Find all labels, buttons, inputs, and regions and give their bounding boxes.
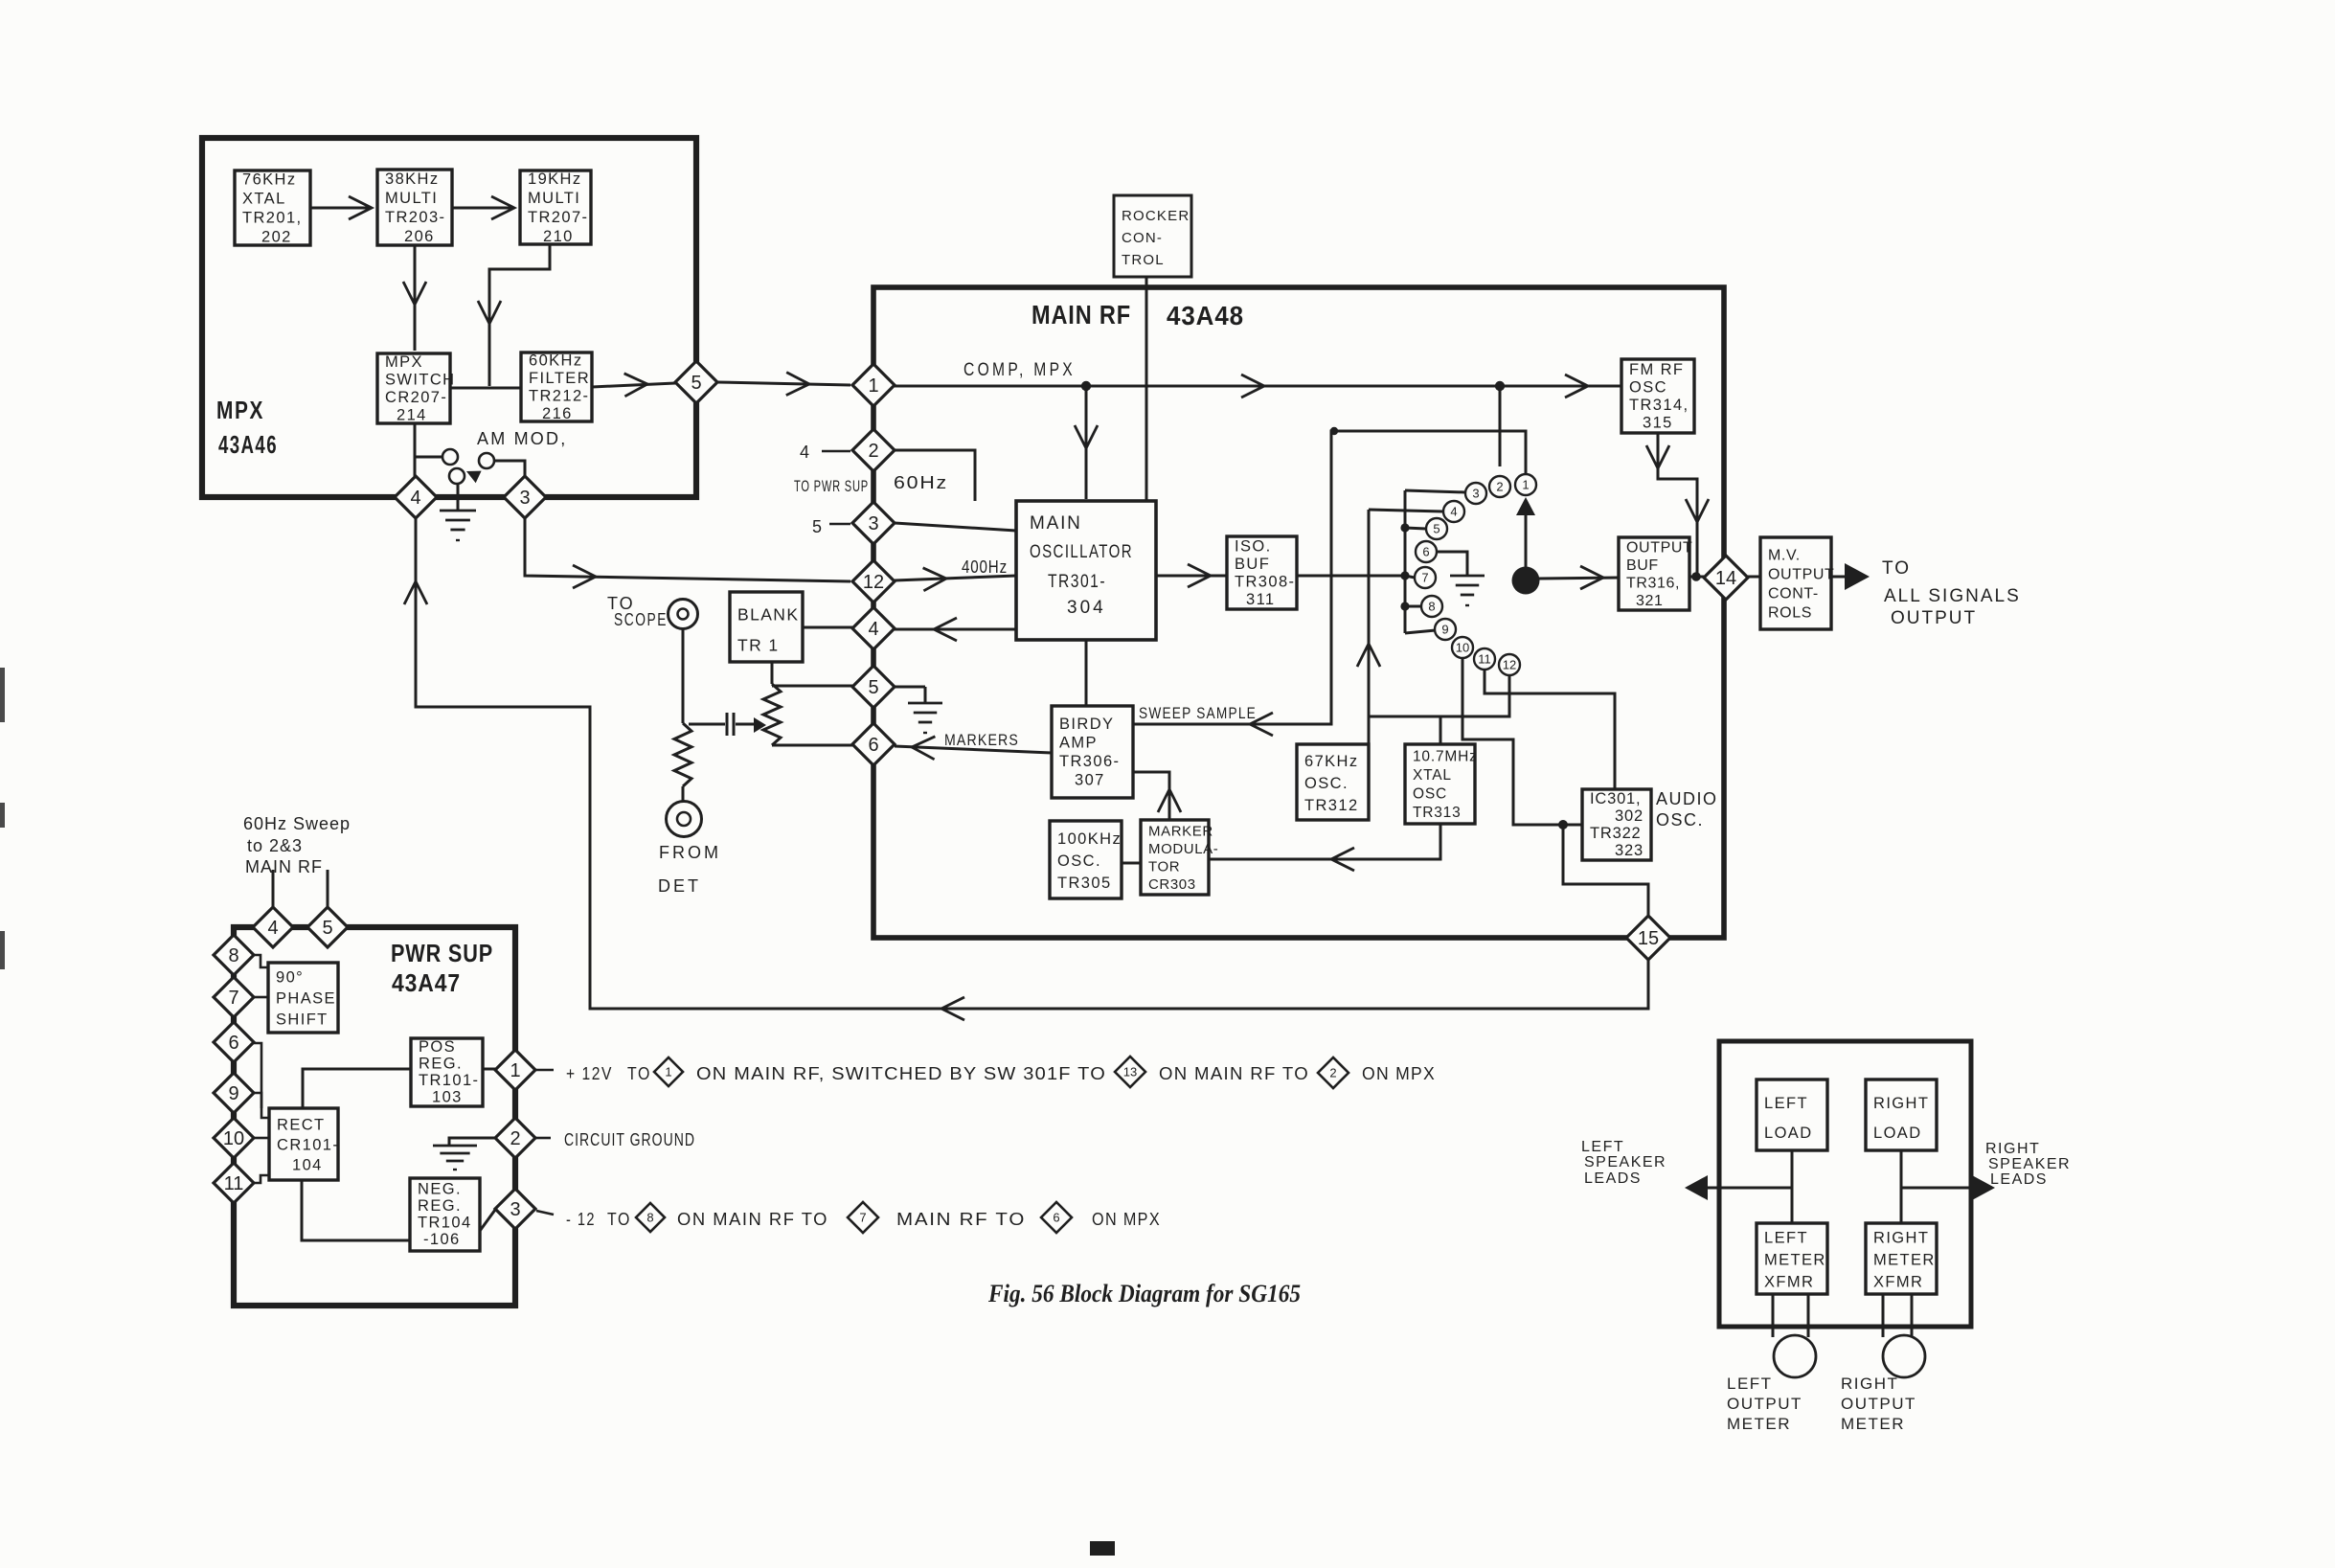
svg-text:TR212-: TR212-	[529, 387, 589, 404]
svg-text:6: 6	[228, 1033, 238, 1054]
svg-text:43A48: 43A48	[1167, 301, 1244, 330]
svg-text:TR203-: TR203-	[385, 209, 445, 226]
svg-text:2: 2	[1329, 1066, 1336, 1080]
svg-text:CON-: CON-	[1122, 230, 1163, 246]
svg-text:67KHz: 67KHz	[1304, 753, 1359, 770]
svg-text:TOR: TOR	[1148, 858, 1180, 875]
svg-text:XFMR: XFMR	[1873, 1273, 1923, 1290]
svg-text:RIGHT: RIGHT	[1873, 1095, 1929, 1112]
svg-text:2: 2	[510, 1128, 520, 1149]
svg-text:ROLS: ROLS	[1768, 605, 1812, 622]
svg-text:SCOPE: SCOPE	[614, 610, 668, 629]
svg-text:400Hz: 400Hz	[962, 557, 1008, 577]
svg-text:13: 13	[1123, 1065, 1137, 1079]
svg-text:OSC: OSC	[1629, 378, 1667, 396]
svg-text:SPEAKER: SPEAKER	[1584, 1154, 1666, 1170]
svg-text:CR303: CR303	[1148, 876, 1196, 893]
svg-text:FILTER: FILTER	[529, 370, 590, 387]
svg-text:MODULA-: MODULA-	[1148, 841, 1218, 857]
svg-text:OUTPUT: OUTPUT	[1891, 608, 1977, 628]
svg-text:4: 4	[868, 619, 878, 640]
svg-text:RIGHT: RIGHT	[1985, 1141, 2040, 1157]
svg-text:XTAL: XTAL	[1413, 767, 1452, 784]
svg-text:LOAD: LOAD	[1873, 1125, 1922, 1142]
svg-text:TR322: TR322	[1590, 825, 1642, 842]
svg-text:SWITCH: SWITCH	[385, 371, 455, 388]
svg-text:ON MPX: ON MPX	[1092, 1210, 1161, 1229]
svg-text:4: 4	[267, 918, 278, 939]
svg-text:ON MAIN RF TO: ON MAIN RF TO	[1159, 1064, 1309, 1083]
svg-text:MAIN: MAIN	[1030, 513, 1082, 534]
svg-text:SHIFT: SHIFT	[276, 1011, 329, 1029]
svg-text:5: 5	[868, 677, 878, 698]
svg-text:9: 9	[228, 1083, 238, 1104]
svg-text:SWEEP SAMPLE: SWEEP SAMPLE	[1139, 704, 1257, 722]
svg-text:COMP, MPX: COMP, MPX	[963, 360, 1076, 380]
svg-text:+ 12V: + 12V	[566, 1064, 613, 1083]
svg-text:PHASE: PHASE	[276, 990, 336, 1008]
svg-text:OSC.: OSC.	[1304, 775, 1349, 792]
svg-text:4: 4	[1450, 505, 1457, 519]
svg-text:3: 3	[519, 488, 530, 509]
svg-text:CR207-: CR207-	[385, 389, 447, 406]
svg-text:OUTPUT: OUTPUT	[1768, 567, 1834, 583]
svg-text:XFMR: XFMR	[1764, 1273, 1814, 1290]
svg-text:IC301,: IC301,	[1590, 790, 1641, 807]
svg-text:1: 1	[1522, 478, 1529, 492]
svg-text:100KHz: 100KHz	[1057, 830, 1122, 848]
svg-text:6: 6	[868, 735, 878, 756]
svg-text:RIGHT: RIGHT	[1873, 1229, 1929, 1246]
svg-text:ON MAIN RF, SWITCHED BY S: ON MAIN RF, SWITCHED BY SW 301F TO	[696, 1064, 1106, 1083]
svg-text:323: 323	[1615, 842, 1644, 859]
svg-text:1: 1	[665, 1065, 671, 1079]
svg-text:LEFT: LEFT	[1727, 1375, 1773, 1393]
svg-text:9: 9	[1441, 623, 1448, 637]
svg-text:ON MAIN RF TO: ON MAIN RF TO	[677, 1210, 828, 1229]
svg-text:7: 7	[228, 988, 238, 1009]
svg-text:TO: TO	[1882, 558, 1911, 579]
svg-text:ON MPX: ON MPX	[1362, 1064, 1436, 1083]
svg-text:11: 11	[224, 1173, 244, 1194]
svg-text:TR308-: TR308-	[1235, 573, 1295, 590]
svg-text:90°: 90°	[276, 969, 304, 987]
svg-text:60Hz Sweep: 60Hz Sweep	[243, 814, 351, 833]
svg-text:TO: TO	[607, 1210, 631, 1229]
svg-text:19KHz: 19KHz	[528, 170, 582, 188]
svg-text:to 2&3: to 2&3	[247, 836, 303, 855]
svg-text:XTAL: XTAL	[242, 191, 286, 208]
svg-text:7: 7	[859, 1211, 866, 1225]
svg-text:302: 302	[1615, 807, 1644, 825]
svg-text:8: 8	[228, 945, 238, 966]
svg-text:LEADS: LEADS	[1584, 1170, 1642, 1187]
svg-text:TR104: TR104	[418, 1215, 472, 1232]
svg-text:BLANK: BLANK	[737, 604, 799, 624]
svg-text:3: 3	[510, 1199, 520, 1220]
svg-text:METER: METER	[1841, 1415, 1905, 1433]
svg-text:2: 2	[1496, 480, 1503, 494]
svg-text:4: 4	[410, 488, 420, 509]
svg-text:MULTI: MULTI	[385, 190, 438, 207]
svg-text:MARKERS: MARKERS	[944, 731, 1019, 749]
svg-text:MPX: MPX	[385, 353, 423, 371]
svg-text:10: 10	[223, 1128, 244, 1149]
svg-text:SPEAKER: SPEAKER	[1988, 1156, 2071, 1172]
svg-text:OUTPUT: OUTPUT	[1626, 539, 1692, 556]
svg-text:MAIN RF: MAIN RF	[1031, 300, 1131, 330]
svg-text:LEFT: LEFT	[1764, 1095, 1808, 1112]
svg-text:321: 321	[1636, 593, 1664, 609]
svg-text:4: 4	[800, 443, 811, 462]
svg-text:202: 202	[261, 229, 292, 246]
svg-text:TR314,: TR314,	[1629, 397, 1689, 414]
svg-text:TR207-: TR207-	[528, 209, 588, 226]
svg-text:NEG.: NEG.	[418, 1181, 462, 1198]
svg-text:OSC.: OSC.	[1057, 852, 1101, 870]
svg-text:LEFT: LEFT	[1764, 1229, 1808, 1246]
svg-text:103: 103	[432, 1089, 463, 1106]
svg-text:8: 8	[646, 1211, 653, 1225]
svg-text:LEADS: LEADS	[1990, 1171, 2048, 1188]
svg-text:12: 12	[1503, 658, 1516, 672]
svg-text:60KHz: 60KHz	[529, 352, 583, 369]
svg-text:11: 11	[1478, 652, 1491, 667]
svg-text:TR101-: TR101-	[419, 1072, 479, 1089]
svg-text:315: 315	[1643, 414, 1673, 431]
svg-text:76KHz: 76KHz	[242, 171, 297, 189]
svg-text:M.V.: M.V.	[1768, 548, 1801, 564]
svg-text:206: 206	[404, 228, 435, 245]
svg-text:5: 5	[322, 918, 332, 939]
svg-text:PWR SUP: PWR SUP	[391, 939, 493, 967]
svg-text:AUDIO: AUDIO	[1656, 789, 1718, 808]
svg-text:1: 1	[868, 375, 878, 397]
svg-text:TO PWR SUP: TO PWR SUP	[794, 477, 869, 495]
svg-text:6: 6	[1053, 1211, 1059, 1225]
svg-text:ISO.: ISO.	[1235, 537, 1272, 555]
svg-text:TR316,: TR316,	[1626, 575, 1680, 591]
svg-text:60Hz: 60Hz	[894, 473, 948, 492]
svg-text:MAIN RF TO: MAIN RF TO	[896, 1210, 1026, 1229]
svg-text:14: 14	[1715, 568, 1736, 589]
svg-text:TR306-: TR306-	[1059, 753, 1120, 770]
svg-text:1: 1	[510, 1060, 520, 1081]
svg-text:3: 3	[1472, 487, 1479, 501]
svg-text:MAIN RF: MAIN RF	[245, 857, 323, 876]
svg-text:5: 5	[691, 373, 701, 394]
svg-text:104: 104	[292, 1156, 323, 1173]
svg-text:DET: DET	[658, 876, 701, 896]
svg-text:OUTPUT: OUTPUT	[1841, 1395, 1916, 1413]
svg-text:43A46: 43A46	[218, 430, 278, 459]
svg-text:TROL: TROL	[1122, 252, 1165, 268]
svg-text:38KHz: 38KHz	[385, 170, 440, 188]
svg-text:OSC: OSC	[1413, 786, 1447, 803]
svg-text:TR313: TR313	[1413, 805, 1462, 821]
svg-text:TR301-: TR301-	[1048, 572, 1106, 592]
svg-text:TR312: TR312	[1304, 797, 1359, 814]
svg-text:BUF: BUF	[1235, 556, 1270, 573]
svg-text:Fig. 56 Block Diagram for SG1: Fig. 56 Block Diagram for SG165	[987, 1280, 1301, 1307]
svg-text:METER: METER	[1727, 1415, 1791, 1433]
svg-text:304: 304	[1067, 598, 1106, 618]
svg-text:3: 3	[868, 513, 878, 534]
svg-text:LEFT: LEFT	[1581, 1139, 1624, 1155]
svg-text:REG.: REG.	[419, 1056, 463, 1073]
svg-text:12: 12	[863, 572, 884, 593]
svg-text:216: 216	[542, 405, 573, 422]
svg-text:MPX: MPX	[216, 396, 264, 424]
svg-text:311: 311	[1246, 591, 1276, 608]
svg-text:5: 5	[1433, 522, 1440, 536]
svg-text:214: 214	[397, 406, 427, 423]
svg-text:TR201,: TR201,	[242, 210, 303, 227]
svg-text:CONT-: CONT-	[1768, 586, 1819, 602]
svg-text:AM MOD,: AM MOD,	[477, 429, 567, 448]
svg-text:FM RF: FM RF	[1629, 361, 1684, 378]
svg-text:43A47: 43A47	[392, 968, 461, 997]
svg-text:5: 5	[812, 517, 824, 536]
svg-text:OSCILLATOR: OSCILLATOR	[1030, 542, 1133, 562]
svg-text:FROM: FROM	[659, 843, 721, 862]
svg-text:TO: TO	[627, 1064, 651, 1083]
svg-text:MULTI: MULTI	[528, 190, 580, 207]
svg-text:METER: METER	[1873, 1251, 1936, 1268]
svg-text:307: 307	[1075, 772, 1105, 789]
svg-text:8: 8	[1428, 600, 1435, 614]
svg-text:210: 210	[543, 228, 574, 245]
svg-text:15: 15	[1638, 928, 1659, 949]
svg-text:BUF: BUF	[1626, 557, 1659, 574]
svg-text:TR 1: TR 1	[737, 635, 780, 654]
svg-text:ROCKER: ROCKER	[1122, 208, 1190, 224]
svg-text:CIRCUIT GROUND: CIRCUIT GROUND	[564, 1130, 695, 1149]
svg-text:LOAD: LOAD	[1764, 1125, 1813, 1142]
svg-text:REG.: REG.	[418, 1197, 462, 1215]
svg-text:2: 2	[868, 441, 878, 462]
svg-text:- 12: - 12	[566, 1210, 596, 1229]
svg-text:10: 10	[1456, 641, 1469, 655]
svg-text:ALL SIGNALS: ALL SIGNALS	[1884, 586, 2021, 606]
svg-text:OSC.: OSC.	[1656, 810, 1704, 829]
svg-text:-106: -106	[423, 1231, 461, 1248]
svg-text:AMP: AMP	[1059, 735, 1098, 752]
svg-text:METER: METER	[1764, 1251, 1826, 1268]
svg-text:10.7MHz: 10.7MHz	[1413, 749, 1478, 765]
svg-text:7: 7	[1421, 571, 1428, 585]
svg-text:MARKER: MARKER	[1148, 823, 1213, 839]
svg-text:6: 6	[1422, 545, 1429, 559]
svg-text:RECT: RECT	[277, 1116, 326, 1133]
svg-text:POS: POS	[419, 1038, 456, 1056]
svg-text:CR101-: CR101-	[277, 1136, 339, 1153]
svg-text:BIRDY: BIRDY	[1059, 716, 1114, 733]
svg-text:TR305: TR305	[1057, 875, 1112, 892]
svg-text:OUTPUT: OUTPUT	[1727, 1395, 1802, 1413]
svg-text:RIGHT: RIGHT	[1841, 1375, 1898, 1393]
